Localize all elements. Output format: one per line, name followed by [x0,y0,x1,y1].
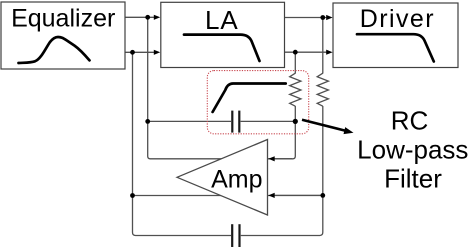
svg-text:Driver: Driver [360,5,435,33]
svg-text:Low-pass: Low-pass [357,134,468,164]
svg-text:RC: RC [391,105,429,135]
svg-text:LA: LA [205,5,239,35]
svg-text:Filter: Filter [384,163,442,193]
svg-text:Equalizer: Equalizer [11,5,115,33]
svg-text:Amp: Amp [211,166,262,194]
